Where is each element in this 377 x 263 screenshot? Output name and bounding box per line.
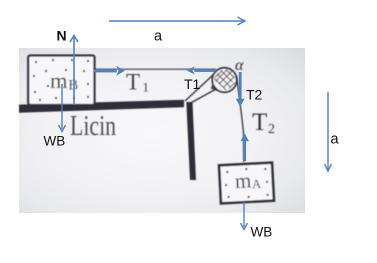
svg-text:a: a bbox=[154, 28, 163, 44]
svg-text:WB: WB bbox=[44, 134, 66, 149]
svg-text:1: 1 bbox=[143, 80, 150, 95]
arrow WB left bbox=[59, 84, 66, 132]
svg-text:m: m bbox=[50, 68, 68, 93]
svg-text:Licin: Licin bbox=[70, 111, 116, 141]
arrow N bbox=[70, 36, 78, 106]
block mB dots bbox=[33, 59, 89, 101]
svg-text:N: N bbox=[57, 27, 67, 43]
svg-text:T: T bbox=[252, 109, 267, 136]
arrow T1 right bbox=[94, 66, 125, 76]
block mA bbox=[219, 163, 274, 204]
table top bbox=[19, 100, 184, 113]
block mB bbox=[28, 56, 94, 106]
annotation text labels bbox=[44, 27, 340, 239]
string vertical bbox=[237, 76, 244, 162]
label mB bbox=[50, 68, 78, 94]
svg-text:T1: T1 bbox=[184, 76, 201, 92]
string horizontal bbox=[94, 68, 216, 70]
svg-text:m: m bbox=[234, 168, 252, 193]
svg-text:α: α bbox=[235, 57, 244, 74]
arrow a top bbox=[109, 17, 245, 25]
svg-text:a: a bbox=[331, 132, 340, 148]
arrow T1 left bbox=[187, 66, 216, 74]
arrow T2 up bbox=[241, 134, 249, 162]
svg-text:WB: WB bbox=[251, 225, 273, 240]
arrow T2 down bbox=[236, 72, 245, 106]
blue annotations bbox=[59, 17, 332, 230]
arrow a right bbox=[325, 92, 332, 171]
pulley bbox=[212, 68, 236, 92]
svg-text:A: A bbox=[252, 177, 262, 191]
arrow WB right bbox=[241, 202, 248, 230]
block mA dots bbox=[224, 167, 269, 199]
svg-text:2: 2 bbox=[268, 122, 275, 137]
svg-text:T: T bbox=[126, 69, 140, 94]
svg-text:T2: T2 bbox=[246, 86, 263, 102]
table leg bbox=[186, 102, 196, 180]
pulley bracket bbox=[185, 75, 217, 106]
